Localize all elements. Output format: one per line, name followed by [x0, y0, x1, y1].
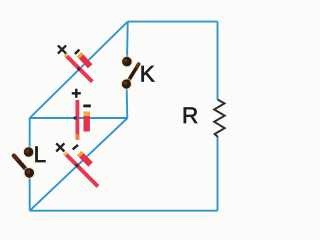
- battery 2 minus label: [83, 105, 91, 108]
- battery 2 plus label: [72, 89, 81, 98]
- wire diagonal E to A (behind battery 1): [30, 22, 128, 118]
- battery 1 plus label (rotated, looks like x): [58, 45, 66, 53]
- wire right lower (resistor down to C): [217, 137, 219, 211]
- svg-text:R: R: [182, 103, 198, 128]
- wire right upper (B down to resistor): [217, 22, 219, 100]
- battery 1 minus label (rotated tick): [75, 50, 80, 54]
- battery 3 plus label (rotated, looks like x): [56, 143, 64, 151]
- battery 3 long plate (positive, on diagonal D-F): [65, 153, 99, 187]
- junction dark spot battery 1 plate over wire: [77, 67, 80, 70]
- battery 3 short plate (negative): [79, 153, 90, 164]
- junction dark spot battery 2 plate over wire: [74, 116, 77, 119]
- switch K upper terminal: [121, 55, 134, 68]
- battery 1 short plate (negative): [79, 54, 90, 66]
- switch K lever: [126, 64, 139, 85]
- wire top (A to B): [128, 21, 218, 23]
- battery 3 minus label (rotated tick): [73, 145, 78, 150]
- resistor R zigzag: [214, 100, 225, 137]
- switch L lower terminal: [23, 167, 36, 180]
- battery 1 long plate (positive, on diagonal E-A): [65, 54, 92, 81]
- wire left lower (D up to switch L lower terminal): [29, 174, 31, 211]
- switch K lower terminal: [120, 78, 132, 90]
- wire K upper (A down to switch K upper terminal): [126, 22, 129, 61]
- wire left upper (switch L upper terminal up to E): [29, 118, 31, 152]
- svg-text:K: K: [140, 62, 155, 87]
- wire K lower (switch K lower terminal down to F): [126, 85, 129, 119]
- switch L upper terminal: [22, 146, 35, 159]
- battery 2 short plate (negative): [83, 112, 89, 132]
- battery 2 long plate (positive, on middle wire): [76, 100, 80, 140]
- switch L lever: [14, 156, 29, 173]
- wire middle horizontal E to F (behind battery 2): [30, 117, 128, 119]
- wire bottom (C to D): [30, 210, 218, 212]
- wire diagonal D to F (behind battery 3): [30, 118, 128, 211]
- junction dark spot battery 3 plate over wire: [75, 164, 78, 167]
- svg-text:L: L: [34, 142, 47, 167]
